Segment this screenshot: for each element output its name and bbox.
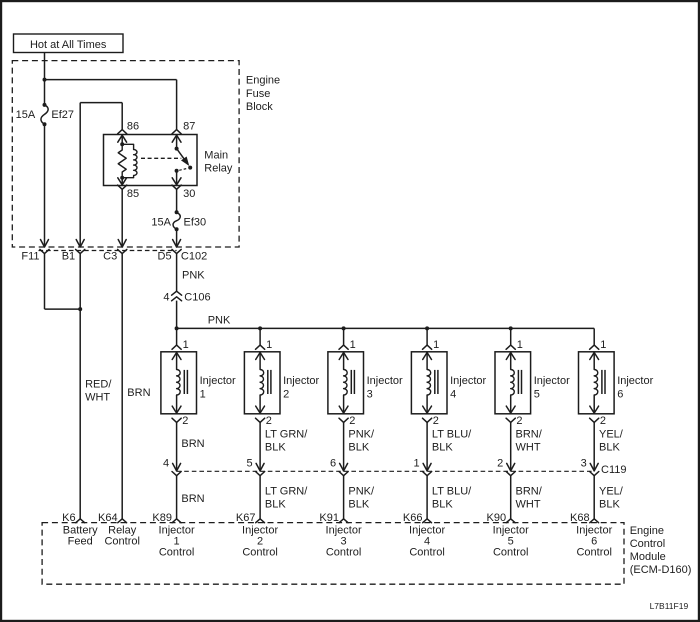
svg-text:Control: Control: [630, 538, 665, 550]
svg-text:C102: C102: [181, 251, 207, 263]
svg-text:Control: Control: [159, 547, 194, 559]
svg-text:Control: Control: [104, 536, 139, 548]
svg-text:Injector: Injector: [450, 375, 486, 387]
svg-text:Control: Control: [576, 547, 611, 559]
svg-text:D5: D5: [158, 251, 172, 263]
svg-text:BLK: BLK: [432, 499, 453, 511]
svg-text:PNK: PNK: [182, 270, 205, 282]
svg-text:BLK: BLK: [599, 441, 620, 453]
svg-text:Relay: Relay: [204, 162, 233, 174]
svg-text:2: 2: [349, 415, 355, 427]
svg-text:30: 30: [183, 188, 195, 200]
svg-text:Injector: Injector: [617, 375, 653, 387]
svg-text:Injector: Injector: [200, 375, 236, 387]
svg-text:WHT: WHT: [516, 499, 541, 511]
svg-text:RED/: RED/: [85, 378, 112, 390]
svg-text:Injector: Injector: [367, 375, 403, 387]
svg-text:Hot at All Times: Hot at All Times: [30, 39, 107, 51]
svg-text:F11: F11: [21, 251, 39, 263]
svg-text:Control: Control: [326, 547, 361, 559]
svg-text:LT BLU/: LT BLU/: [432, 428, 472, 440]
svg-text:6: 6: [617, 388, 623, 400]
svg-text:BLK: BLK: [265, 499, 286, 511]
svg-text:3: 3: [367, 388, 373, 400]
svg-text:Control: Control: [242, 547, 277, 559]
svg-text:C119: C119: [601, 464, 626, 476]
svg-text:K64: K64: [98, 512, 118, 524]
svg-text:K6: K6: [62, 512, 75, 524]
svg-text:2: 2: [516, 415, 522, 427]
svg-text:Injector: Injector: [534, 375, 570, 387]
svg-text:1: 1: [600, 339, 606, 351]
svg-text:6: 6: [330, 458, 336, 470]
svg-text:1: 1: [350, 339, 356, 351]
svg-text:5: 5: [246, 458, 252, 470]
svg-text:87: 87: [183, 121, 195, 133]
svg-text:4: 4: [163, 292, 169, 304]
svg-text:4: 4: [450, 388, 456, 400]
svg-text:Control: Control: [493, 547, 528, 559]
svg-text:C106: C106: [184, 292, 210, 304]
svg-text:BRN: BRN: [181, 438, 204, 450]
svg-text:BRN/: BRN/: [516, 428, 543, 440]
svg-text:BLK: BLK: [599, 499, 620, 511]
svg-text:86: 86: [127, 121, 139, 133]
svg-text:1: 1: [413, 458, 419, 470]
svg-text:YEL/: YEL/: [599, 428, 624, 440]
svg-text:BRN: BRN: [127, 387, 150, 399]
svg-text:BLK: BLK: [348, 499, 369, 511]
svg-text:PNK/: PNK/: [348, 486, 375, 498]
svg-text:Block: Block: [246, 101, 273, 113]
svg-text:LT BLU/: LT BLU/: [432, 486, 472, 498]
svg-text:Engine: Engine: [630, 525, 664, 537]
svg-text:2: 2: [497, 458, 503, 470]
svg-text:1: 1: [266, 339, 272, 351]
svg-text:Ef27: Ef27: [51, 109, 74, 121]
svg-text:2: 2: [266, 415, 272, 427]
svg-text:85: 85: [127, 188, 139, 200]
svg-text:YEL/: YEL/: [599, 486, 624, 498]
svg-text:BRN/: BRN/: [516, 486, 543, 498]
svg-text:2: 2: [182, 415, 188, 427]
svg-text:2: 2: [283, 388, 289, 400]
svg-text:Module: Module: [630, 551, 666, 563]
svg-text:BLK: BLK: [348, 441, 369, 453]
svg-text:3: 3: [581, 458, 587, 470]
svg-text:B1: B1: [62, 251, 75, 263]
svg-text:LT GRN/: LT GRN/: [265, 428, 308, 440]
svg-text:15A: 15A: [16, 109, 36, 121]
svg-text:PNK/: PNK/: [348, 428, 375, 440]
svg-text:4: 4: [163, 458, 169, 470]
svg-text:2: 2: [600, 415, 606, 427]
svg-text:Feed: Feed: [68, 536, 93, 548]
svg-text:BRN: BRN: [181, 493, 204, 505]
svg-text:(ECM-D160): (ECM-D160): [630, 564, 692, 576]
svg-text:LT GRN/: LT GRN/: [265, 486, 308, 498]
svg-text:C3: C3: [103, 251, 117, 263]
svg-text:Injector: Injector: [283, 375, 319, 387]
svg-text:Fuse: Fuse: [246, 88, 270, 100]
svg-text:Ef30: Ef30: [184, 217, 207, 229]
svg-text:WHT: WHT: [85, 391, 110, 403]
svg-text:15A: 15A: [151, 217, 171, 229]
svg-text:1: 1: [200, 388, 206, 400]
svg-text:PNK: PNK: [208, 314, 231, 326]
svg-text:BLK: BLK: [432, 441, 453, 453]
svg-text:1: 1: [517, 339, 523, 351]
svg-text:2: 2: [433, 415, 439, 427]
svg-text:WHT: WHT: [516, 441, 541, 453]
svg-text:BLK: BLK: [265, 441, 286, 453]
svg-text:Control: Control: [409, 547, 444, 559]
svg-text:1: 1: [433, 339, 439, 351]
svg-text:L7B11F19: L7B11F19: [650, 601, 689, 611]
svg-text:Main: Main: [204, 149, 228, 161]
svg-text:Engine: Engine: [246, 75, 280, 87]
svg-text:1: 1: [183, 339, 189, 351]
svg-text:5: 5: [534, 388, 540, 400]
